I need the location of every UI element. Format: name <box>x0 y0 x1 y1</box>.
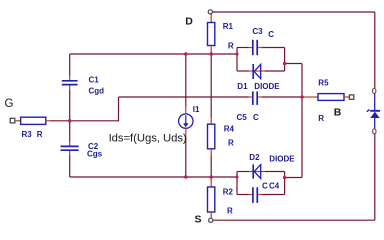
svg-text:D2: D2 <box>249 153 260 162</box>
lead R4 bottom <box>210 149 212 156</box>
wire S row horizontal <box>70 176 237 178</box>
pin G square <box>10 118 15 123</box>
junction dot D node left <box>184 52 188 56</box>
lead C2 top <box>69 142 71 146</box>
svg-text:DIODE: DIODE <box>269 154 295 163</box>
lead D1 through <box>249 70 265 72</box>
resistor R2 body <box>208 187 215 212</box>
lead C5 left <box>249 96 252 98</box>
box D2 C4 top edge left segment <box>237 171 249 173</box>
lead C5 right <box>258 96 262 98</box>
wire gate capacitor rail upper <box>69 54 71 76</box>
capacitor C1 plates <box>62 80 78 82</box>
diode D1 triangle <box>254 64 261 78</box>
wire right rail upper <box>374 12 376 88</box>
capacitor C5 plates <box>252 91 254 105</box>
junction dot box2 left edge <box>235 175 238 178</box>
current source I1 arrow <box>185 115 187 124</box>
junction dot box1 right edge <box>283 62 287 66</box>
junction dot box1 left edge <box>235 52 238 55</box>
wire I1 source vertical <box>185 137 187 178</box>
diode D1 cathode bar <box>252 64 254 79</box>
lead C3 left <box>249 47 252 49</box>
lead C1 bottom <box>69 86 71 90</box>
wire gate capacitor rail lower <box>69 155 71 177</box>
box D2 C4 right edge <box>284 172 286 195</box>
lead C2 bottom <box>69 151 71 155</box>
lead C4 right <box>258 194 262 196</box>
lead R5 left <box>302 96 318 98</box>
diode D2 triangle <box>254 165 261 179</box>
svg-text:I1: I1 <box>193 105 200 114</box>
svg-text:DIODE: DIODE <box>254 82 280 91</box>
lead R5 right <box>344 96 349 98</box>
pin D circle <box>208 10 212 14</box>
wire blue diode bottom lead <box>374 118 376 129</box>
box D2 C4 bottom edge right segment <box>262 194 285 196</box>
svg-text:C5: C5 <box>237 113 248 122</box>
svg-text:R3: R3 <box>22 130 33 139</box>
lead R3 left <box>15 120 20 122</box>
box D2 C4 top edge right segment <box>265 171 285 173</box>
wire G row <box>51 120 119 122</box>
diode V1 bar left tick <box>367 110 370 112</box>
resistor R5 body <box>318 94 344 101</box>
pin circle upper on right rail <box>373 88 376 93</box>
wire blue diode top lead <box>374 94 376 111</box>
diode V1 triangle <box>370 112 379 118</box>
current source I1 circle <box>179 114 193 128</box>
box D1 C3 top edge left segment <box>237 47 249 49</box>
junction dot S node R rail <box>209 175 213 179</box>
svg-text:C: C <box>253 113 259 122</box>
svg-text:D: D <box>185 15 193 27</box>
lead C3 right <box>258 47 262 49</box>
lead C4 left <box>249 194 253 196</box>
wire R4 to S row <box>210 156 212 177</box>
lead R1 bottom <box>210 46 212 55</box>
svg-text:B: B <box>334 107 342 119</box>
wire D row horizontal <box>70 53 237 55</box>
wire B net vertical <box>301 64 303 178</box>
lead R4 top <box>210 118 212 125</box>
wire top D net to right rail <box>213 11 375 13</box>
svg-text:Cgd: Cgd <box>89 86 105 95</box>
svg-text:D1: D1 <box>237 82 248 91</box>
pin B square <box>349 95 353 99</box>
svg-text:Cgs: Cgs <box>87 149 103 158</box>
resistor R3 body <box>21 117 46 124</box>
junction dot G node <box>68 119 72 123</box>
wire gate capacitor rail middle <box>69 90 71 142</box>
resistor R4 body <box>208 124 215 149</box>
lead R2 top <box>210 177 212 187</box>
wire B net to box2 <box>285 177 302 179</box>
junction dot box2 right edge <box>283 176 287 180</box>
svg-text:R: R <box>228 41 234 50</box>
diode V1 cathode bar <box>370 110 380 112</box>
wire bottom S net <box>213 219 375 221</box>
pin circle lower on right rail <box>373 129 376 134</box>
svg-text:R: R <box>227 207 233 216</box>
svg-text:R4: R4 <box>224 125 235 134</box>
wire R rail D to R4 <box>210 54 212 118</box>
junction dot S node left <box>184 175 188 179</box>
lead D2 through <box>249 171 265 173</box>
wire C5 to B junction <box>262 96 302 98</box>
box D1 C3 right edge <box>284 48 286 72</box>
lead C1 top <box>69 76 71 80</box>
svg-text:R: R <box>318 114 324 123</box>
lead I1 top <box>185 106 187 114</box>
wire B net from box1 <box>285 63 302 65</box>
lead R2 bottom <box>210 212 212 218</box>
svg-text:C4: C4 <box>269 182 280 191</box>
box D1 C3 bottom edge left segment <box>237 70 249 72</box>
junction dot D node R rail <box>209 52 213 56</box>
capacitor C4 plates <box>252 187 254 203</box>
wire G upper row to C5 <box>119 96 249 98</box>
capacitor C3 plates <box>252 40 254 55</box>
lead R1 top <box>210 14 212 23</box>
svg-text:C3: C3 <box>252 27 263 36</box>
svg-text:Ids=f(Ugs, Uds): Ids=f(Ugs, Uds) <box>109 132 187 144</box>
box D1 C3 left edge <box>236 48 238 72</box>
wire G step vertical <box>118 97 120 121</box>
svg-text:R2: R2 <box>223 188 234 197</box>
box D1 C3 bottom edge right segment <box>265 70 285 72</box>
capacitor C2 plates <box>61 145 79 147</box>
box D2 C4 left edge <box>236 172 238 195</box>
box D1 C3 top edge right segment <box>262 47 285 49</box>
diode D2 cathode bar <box>252 164 254 178</box>
box D2 C4 bottom edge left segment <box>237 194 249 196</box>
svg-text:S: S <box>195 214 202 226</box>
svg-text:R5: R5 <box>318 78 329 87</box>
lead I1 bottom <box>185 128 187 136</box>
svg-text:R: R <box>37 130 43 139</box>
lead R3 right <box>46 120 51 122</box>
svg-text:C: C <box>262 182 268 191</box>
svg-text:C1: C1 <box>89 76 100 85</box>
wire I1 drain vertical <box>185 54 187 106</box>
junction dot B node <box>300 95 304 99</box>
pin S circle <box>209 218 213 222</box>
resistor R1 body <box>208 23 215 46</box>
svg-text:C: C <box>268 30 274 39</box>
svg-text:G: G <box>5 98 14 110</box>
svg-text:R: R <box>228 139 234 148</box>
svg-text:R1: R1 <box>223 22 234 31</box>
wire right rail lower <box>374 134 376 220</box>
